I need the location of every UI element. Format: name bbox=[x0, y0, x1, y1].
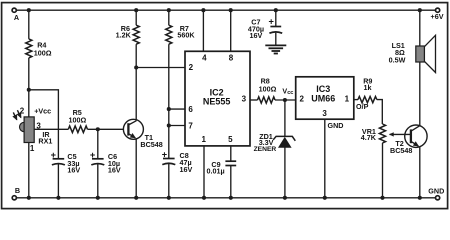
capacitor C7 bbox=[269, 27, 282, 34]
wire C8 to bottom rail bbox=[168, 164, 170, 198]
wire R5 to T1 base bbox=[88, 128, 124, 130]
wire T2 collector to speaker bbox=[419, 62, 421, 126]
svg-text:NE555: NE555 bbox=[203, 96, 231, 106]
svg-text:1: 1 bbox=[30, 144, 35, 153]
junction IC2 pin4/top rail bbox=[201, 8, 205, 12]
wire speaker to top rail bbox=[419, 10, 421, 46]
junction C6/bottom rail bbox=[96, 196, 100, 200]
wire ZD1 column bbox=[284, 100, 286, 136]
resistor R5 bbox=[68, 126, 87, 133]
wire ZD1 to bottom rail bbox=[284, 147, 286, 198]
junction C9/bottom rail bbox=[229, 196, 233, 200]
wire IC2 pin5 to C9 bbox=[230, 146, 232, 161]
svg-text:0.5W: 0.5W bbox=[389, 56, 406, 65]
capacitor C6 bbox=[91, 159, 104, 165]
wire VR1 to bottom rail bbox=[382, 143, 384, 198]
wire RX1 pin1 to bottom rail bbox=[28, 143, 30, 198]
transistor T2 bbox=[405, 125, 427, 147]
wire IC2 pin1 to bottom rail bbox=[203, 146, 205, 198]
IR receiver RX1 bbox=[20, 117, 35, 143]
IR arrows bbox=[13, 112, 16, 119]
svg-text:100Ω: 100Ω bbox=[34, 49, 52, 58]
svg-text:3: 3 bbox=[322, 109, 327, 118]
junction RX1 pin1/bottom rail bbox=[27, 196, 31, 200]
wire node to IC2 pin2 bbox=[136, 67, 185, 69]
svg-text:3: 3 bbox=[36, 122, 41, 131]
svg-text:BC548: BC548 bbox=[390, 146, 412, 155]
junction T1 emitter/bottom rail bbox=[134, 196, 138, 200]
resistor R9 bbox=[358, 97, 377, 103]
svg-text:4: 4 bbox=[202, 54, 207, 63]
resistor R6 bbox=[133, 25, 139, 44]
node GND terminal bbox=[436, 196, 440, 200]
ground bbox=[265, 45, 286, 53]
wire R7 to pins 6,7 bbox=[168, 44, 170, 125]
svg-text:RX1: RX1 bbox=[38, 136, 52, 145]
svg-text:GND: GND bbox=[328, 121, 344, 130]
svg-text:+: + bbox=[269, 17, 274, 27]
junction R7/IC2 pin7/C8 bbox=[167, 123, 171, 127]
wire stub to IC2 pin6 bbox=[169, 108, 185, 110]
wire C7 to ground bbox=[275, 33, 277, 46]
svg-text:8: 8 bbox=[229, 54, 234, 63]
node B terminal bbox=[12, 196, 16, 200]
junction IC2 pin1/bottom rail bbox=[202, 196, 206, 200]
junction C8/bottom rail bbox=[167, 196, 171, 200]
wire T1 emitter to bottom rail bbox=[135, 138, 137, 197]
svg-text:O/P: O/P bbox=[356, 102, 369, 111]
wire C6 to bottom rail bbox=[97, 164, 99, 198]
wire C6 column bbox=[97, 129, 99, 158]
junction C7/top rail bbox=[274, 8, 278, 12]
junction node Vcc (R8/ZD1/IC3 pin2) bbox=[283, 98, 287, 102]
svg-text:BC548: BC548 bbox=[140, 140, 162, 149]
junction R6/T1 collector/IC2 pin2 node bbox=[134, 65, 138, 69]
wire R9 to VR1 bbox=[377, 100, 383, 124]
wire R7 column top bbox=[168, 10, 170, 25]
capacitor C9 bbox=[225, 161, 236, 165]
wire R4 to RX1 pin2 bbox=[28, 58, 30, 117]
svg-text:7: 7 bbox=[188, 122, 193, 131]
capacitor C5 bbox=[52, 159, 65, 165]
wire IC2 pin4 to rail bbox=[202, 10, 204, 51]
junction ZD1/bottom rail bbox=[283, 196, 287, 200]
potentiometer VR1 bbox=[379, 124, 385, 143]
junction VR1/bottom rail bbox=[380, 196, 384, 200]
svg-text:560K: 560K bbox=[177, 31, 195, 40]
loudspeaker LS1 bbox=[416, 35, 436, 72]
svg-text:B: B bbox=[15, 186, 20, 195]
svg-text:100Ω: 100Ω bbox=[259, 84, 277, 93]
junction LS1/top rail bbox=[418, 8, 422, 12]
wire R4 column top bbox=[28, 10, 30, 39]
resistor R7 bbox=[166, 25, 172, 44]
svg-text:16V: 16V bbox=[250, 31, 263, 40]
wire top rail bbox=[17, 9, 436, 11]
junction R7/IC2 pin6 bbox=[167, 107, 171, 111]
svg-text:0.01µ: 0.01µ bbox=[207, 167, 225, 176]
svg-text:5: 5 bbox=[228, 135, 233, 144]
wire VR1 wiper to T2 base bbox=[390, 133, 411, 135]
svg-text:1.2K: 1.2K bbox=[116, 31, 132, 40]
wire stub to IC2 pin7 bbox=[169, 125, 185, 127]
wire to C8 bbox=[168, 126, 170, 159]
wire C7 column bbox=[275, 10, 277, 26]
svg-text:GND: GND bbox=[428, 187, 444, 196]
svg-text:+Vcc: +Vcc bbox=[34, 106, 51, 115]
svg-text:16V: 16V bbox=[180, 165, 193, 174]
svg-text:100Ω: 100Ω bbox=[69, 116, 87, 125]
junction IC2 pin8/top rail bbox=[229, 8, 233, 12]
wire R6 to collector node bbox=[135, 44, 137, 67]
wire T2 emitter to bottom rail bbox=[419, 147, 421, 198]
wire +Vcc branch to C5 bbox=[29, 90, 59, 159]
wire IC2 pin8 to rail bbox=[230, 10, 232, 51]
svg-text:4.7K: 4.7K bbox=[361, 133, 377, 142]
svg-text:2: 2 bbox=[299, 94, 304, 103]
node +6V terminal bbox=[436, 8, 440, 12]
node A terminal bbox=[12, 8, 16, 12]
svg-text:1k: 1k bbox=[364, 83, 372, 92]
wire RX1 pin3 output bbox=[34, 128, 68, 130]
junction R5/C6/T1 base node bbox=[96, 127, 100, 131]
IC2 box bbox=[185, 51, 250, 146]
svg-text:IC3: IC3 bbox=[316, 84, 330, 94]
zener diode ZD1 bbox=[273, 136, 295, 147]
svg-text:+: + bbox=[162, 150, 167, 160]
svg-text:+: + bbox=[51, 150, 56, 160]
capacitor C8 bbox=[162, 159, 175, 165]
svg-text:3: 3 bbox=[242, 94, 247, 103]
svg-text:Vcc: Vcc bbox=[282, 86, 293, 96]
svg-text:A: A bbox=[14, 13, 19, 22]
svg-text:2: 2 bbox=[20, 107, 25, 116]
wire IC3 pin3 to bottom rail bbox=[324, 119, 326, 198]
junction T2 emitter/bottom rail bbox=[418, 196, 422, 200]
wire T1 collector up bbox=[135, 68, 137, 121]
junction R4/top rail bbox=[27, 8, 31, 12]
junction IC3 pin3/bottom rail bbox=[323, 196, 327, 200]
svg-text:16V: 16V bbox=[67, 166, 80, 175]
svg-text:16V: 16V bbox=[108, 166, 121, 175]
svg-text:2: 2 bbox=[189, 63, 194, 72]
junction node +Vcc (R4/RX1 pin2/C5 branch) bbox=[27, 88, 31, 92]
svg-text:1: 1 bbox=[201, 135, 206, 144]
svg-text:6: 6 bbox=[188, 105, 193, 114]
wire IC2 pin3 out bbox=[250, 99, 258, 101]
svg-text:+6V: +6V bbox=[431, 12, 444, 21]
wire C5 to bottom rail bbox=[57, 164, 59, 198]
wire R6 column top bbox=[135, 10, 137, 25]
resistor R4 bbox=[26, 39, 32, 58]
svg-text:+: + bbox=[90, 150, 95, 160]
svg-text:ZENER: ZENER bbox=[254, 146, 277, 153]
junction R6/top rail bbox=[134, 8, 138, 12]
svg-text:UM66: UM66 bbox=[311, 94, 335, 104]
wire R8 to IC3 pin2 bbox=[275, 99, 296, 101]
wire bottom rail bbox=[17, 197, 436, 199]
junction C5/bottom rail bbox=[56, 196, 60, 200]
wire IC3 pin1 out bbox=[354, 99, 358, 101]
svg-text:1: 1 bbox=[345, 94, 350, 103]
IC3 box bbox=[296, 77, 354, 119]
transistor T1 bbox=[123, 119, 143, 139]
resistor R8 bbox=[258, 97, 276, 103]
junction R7/top rail bbox=[167, 8, 171, 12]
wire C9 to bottom rail bbox=[230, 166, 232, 198]
